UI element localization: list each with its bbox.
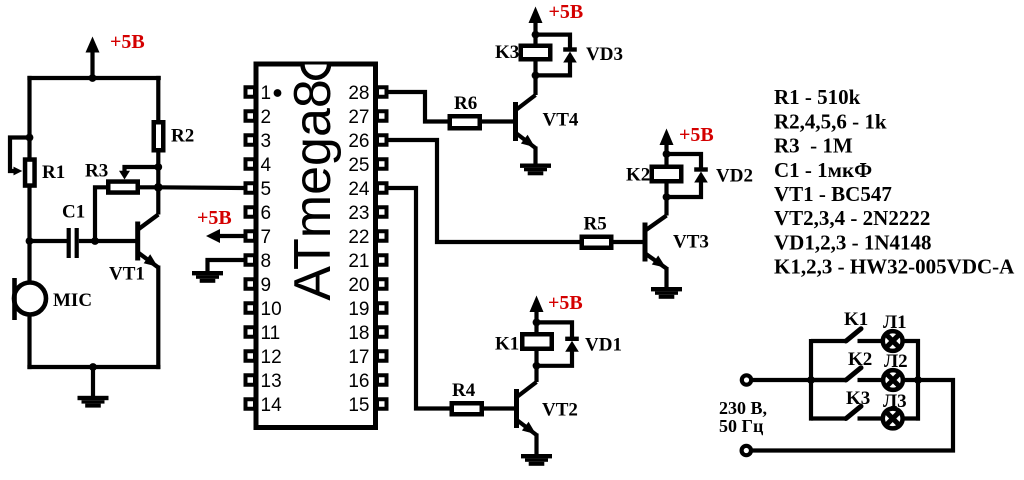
wire: lamp L1 to right bus — [902, 339, 920, 343]
wire: K3 top leg — [533, 35, 537, 45]
node: junction K1/VD1 bottom — [533, 362, 541, 370]
svg-text:9: 9 — [261, 275, 272, 296]
power +5V arrow (K3) — [529, 7, 543, 35]
wire: VD3 branch bottom — [536, 62, 571, 76]
wire: K1 top leg — [534, 322, 538, 333]
label 230V 50Hz — [719, 398, 767, 436]
transistor VT2 — [517, 382, 537, 435]
svg-text:20: 20 — [348, 275, 369, 296]
pin 16 (right) — [377, 375, 387, 385]
svg-text:18: 18 — [348, 323, 369, 344]
svg-text:VT2: VT2 — [542, 400, 578, 421]
power +5V arrow (K1) — [530, 296, 544, 323]
pin 6 (left) — [246, 207, 256, 217]
wire: return to bottom terminal — [751, 380, 953, 451]
svg-text:25: 25 — [348, 155, 369, 176]
pin 2 (left) — [246, 111, 256, 121]
wire: top terminal to switches — [751, 378, 846, 382]
svg-text:22: 22 — [348, 227, 369, 248]
wire: VT1 collector up to junction — [156, 189, 160, 215]
terminal (230V top) — [742, 375, 751, 384]
pin 14 (left) — [246, 399, 256, 409]
node: junction +5V/K2/VD2 top — [663, 150, 671, 158]
wire: lamp L2 to right bus — [902, 378, 920, 382]
svg-text:R1 - 510k: R1 - 510k — [774, 85, 861, 109]
svg-text:+5B: +5B — [679, 124, 714, 146]
svg-text:1: 1 — [261, 83, 272, 104]
wire: VT3 emitter to ground — [664, 267, 668, 288]
svg-text:24: 24 — [348, 179, 370, 200]
svg-text:VD2: VD2 — [716, 166, 753, 187]
microphone MIC — [14, 278, 46, 320]
pin 17 (right) — [377, 351, 387, 361]
wire: VD1 branch top — [537, 322, 573, 340]
pin 24 (right) — [377, 183, 387, 193]
svg-text:Л3: Л3 — [883, 391, 907, 412]
svg-text:R5: R5 — [584, 214, 607, 235]
svg-text:ATmega8: ATmega8 — [284, 79, 342, 301]
node: junction R2/R3/pin5/VT1-collector — [154, 183, 163, 192]
svg-text:17: 17 — [348, 347, 369, 368]
pin 5 (left) — [246, 183, 256, 193]
R3 wiper arrow — [119, 167, 158, 180]
node: junction +5V/K1/VD1 top — [533, 319, 541, 327]
pin 4 (left) — [246, 159, 256, 169]
parts list text — [774, 85, 1015, 278]
svg-text:+5B: +5B — [549, 1, 584, 23]
svg-text:21: 21 — [348, 251, 369, 272]
wire: VT2 emitter to ground — [534, 434, 538, 455]
svg-text:R2,4,5,6 - 1k: R2,4,5,6 - 1k — [774, 109, 887, 133]
wire: VT1 emitter down to bottom rail — [156, 266, 160, 370]
wire: R1 bottom to microphone — [27, 188, 31, 285]
switch K3 (contact) — [811, 406, 883, 418]
svg-text:K2: K2 — [848, 349, 872, 370]
svg-text:VD3: VD3 — [586, 44, 623, 65]
svg-text:23: 23 — [348, 203, 369, 224]
svg-text:K1,2,3 - HW32-005VDC-A: K1,2,3 - HW32-005VDC-A — [774, 255, 1015, 279]
node: junction K3/VD3 bottom — [532, 72, 540, 80]
potentiometer R3 body — [108, 182, 138, 193]
wire: bottom rail — [27, 365, 160, 369]
wire: R6 to VT4 base — [481, 119, 514, 123]
ground (pin 8) — [192, 271, 223, 283]
wire: VD2 branch top — [667, 154, 702, 171]
pin 26 (right) — [377, 135, 387, 145]
svg-text:11: 11 — [261, 323, 281, 344]
capacitor C1 — [67, 228, 79, 258]
pin 21 (right) — [377, 255, 387, 265]
pin 8 (left) — [246, 255, 256, 265]
R1 wiper wire loop — [10, 134, 33, 176]
resistor R6 — [450, 116, 480, 128]
IC notch — [303, 65, 330, 78]
svg-text:5: 5 — [261, 179, 272, 200]
svg-text:16: 16 — [348, 371, 369, 392]
svg-text:+5B: +5B — [197, 207, 232, 229]
pin 7 (left) — [246, 231, 256, 241]
svg-text:19: 19 — [348, 299, 369, 320]
svg-text:MIC: MIC — [53, 290, 92, 311]
svg-text:28: 28 — [348, 83, 369, 104]
wire: R2 bottom leg to collector junction — [156, 153, 160, 188]
svg-text:7: 7 — [261, 227, 272, 248]
wire: pin 28 to R6 — [388, 92, 449, 122]
switch K1 (contact) — [811, 329, 883, 341]
svg-text:8: 8 — [261, 251, 272, 272]
ground (VT2) — [521, 454, 552, 466]
node: junction R2-bottom / R3 wiper — [154, 163, 162, 171]
svg-text:R3: R3 — [85, 161, 108, 182]
svg-text:10: 10 — [261, 299, 282, 320]
wire: R3 right to main junction — [140, 185, 158, 189]
svg-text:26: 26 — [348, 131, 369, 152]
svg-text:15: 15 — [348, 395, 369, 416]
lamp L1 — [883, 331, 903, 351]
switch K2 (contact) — [811, 368, 883, 380]
svg-text:VT1 - BC547: VT1 - BC547 — [774, 182, 892, 206]
svg-text:VD1: VD1 — [585, 335, 622, 356]
svg-text:3: 3 — [261, 131, 272, 152]
wire: microphone to bottom rail — [27, 313, 31, 369]
svg-text:R1: R1 — [42, 162, 65, 183]
svg-text:C1 - 1мкФ: C1 - 1мкФ — [774, 158, 872, 182]
ground (VT3) — [651, 287, 682, 299]
node: junction C1/R3-left — [91, 237, 99, 245]
svg-text:VT3: VT3 — [673, 232, 709, 253]
wire: VT4 emitter to ground — [533, 147, 537, 165]
pin 13 (left) — [246, 375, 256, 385]
node: junction +5V / top rail — [89, 74, 97, 82]
svg-text:12: 12 — [261, 347, 282, 368]
wire: K2 top leg — [664, 154, 668, 166]
pin 9 (left) — [246, 279, 256, 289]
diode VD1 — [565, 339, 579, 352]
svg-text:2: 2 — [261, 107, 272, 128]
relay coil K3 — [521, 46, 551, 60]
wire: R4 to VT2 base — [484, 406, 515, 410]
svg-text:R2: R2 — [171, 126, 194, 147]
pin 18 (right) — [377, 327, 387, 337]
potentiometer R1 body — [25, 160, 35, 186]
wire: top rail R1-top to R2-top — [27, 76, 160, 80]
ground (VT4) — [520, 164, 551, 176]
node: junction left bus / feed — [807, 376, 815, 384]
wire: pin 8 to ground — [208, 260, 246, 272]
wire: ground stub — [91, 367, 95, 397]
wire: junction to ATmega8 pin 5 — [158, 185, 245, 190]
transistor VT1 — [138, 215, 159, 268]
pin 11 (left) — [246, 327, 256, 337]
wire: lamp L3 to right bus — [902, 416, 920, 420]
transistor VT3 — [645, 216, 667, 269]
svg-text:VD1,2,3 - 1N4148: VD1,2,3 - 1N4148 — [774, 230, 932, 254]
wire: R5 to VT3 base — [613, 240, 643, 244]
resistor R2 — [154, 122, 164, 150]
svg-text:VT4: VT4 — [543, 110, 579, 131]
ground (input stage) — [78, 396, 109, 408]
svg-text:R3 - 1M: R3 - 1M — [774, 134, 853, 158]
svg-text:VT2,3,4 - 2N2222: VT2,3,4 - 2N2222 — [774, 206, 930, 230]
wire: R2 top leg — [156, 76, 160, 121]
pin 1 (left) — [246, 87, 256, 97]
lamp L3 — [883, 409, 903, 429]
wire: K2 bottom leg — [664, 182, 668, 198]
transistor VT4 — [516, 95, 536, 148]
relay coil K1 — [522, 334, 552, 349]
wire: VT3 collector up — [664, 197, 668, 216]
wire: left rail from top rail down to R1 — [27, 76, 31, 159]
svg-text:+5B: +5B — [110, 31, 145, 53]
svg-text:R4: R4 — [452, 380, 476, 401]
wire: K1 bottom leg — [534, 349, 538, 366]
power +5V arrow at pin 7 — [206, 229, 245, 243]
svg-text:230 В,: 230 В, — [719, 398, 767, 418]
svg-text:K3: K3 — [846, 388, 870, 409]
wire: VD2 branch bottom — [667, 182, 702, 198]
node: junction right bus / return — [914, 376, 922, 384]
node: junction +5V/K3/VD3 top — [532, 31, 540, 39]
pin 1 marker dot — [274, 89, 282, 97]
pin 12 (left) — [246, 351, 256, 361]
svg-text:K1: K1 — [495, 334, 519, 355]
pin 25 (right) — [377, 159, 387, 169]
IC U1 ATmega8 body — [256, 64, 376, 428]
wire: C1 to VT1 base — [79, 239, 136, 243]
wire: K3 bottom leg — [533, 61, 537, 76]
svg-text:27: 27 — [348, 107, 369, 128]
svg-text:6: 6 — [261, 203, 272, 224]
pin 3 (left) — [246, 135, 256, 145]
svg-text:K2: K2 — [626, 165, 650, 186]
terminal (230V bottom) — [742, 446, 751, 455]
wire: VT4 collector up — [533, 75, 537, 95]
svg-text:14: 14 — [261, 395, 283, 416]
svg-text:R6: R6 — [454, 93, 477, 114]
svg-text:Л1: Л1 — [883, 312, 907, 333]
wire: C1 input wire from left rail — [26, 237, 34, 245]
node: junction K2/VD2 bottom — [663, 193, 671, 201]
diode VD2 — [694, 170, 708, 183]
wire: pin 24 to R4 — [388, 188, 451, 409]
diode VD3 — [563, 50, 577, 63]
svg-text:K1: K1 — [844, 309, 868, 330]
power +5V arrow (top-left) — [86, 37, 100, 79]
pin 22 (right) — [377, 231, 387, 241]
wire: pin 26 to R5 — [388, 140, 581, 242]
resistor R4 — [452, 403, 482, 414]
wire: VD3 branch top — [536, 35, 571, 51]
pin 10 (left) — [246, 303, 256, 313]
wire: VD1 branch bottom — [537, 351, 573, 366]
pin 27 (right) — [377, 111, 387, 121]
pin 20 (right) — [377, 279, 387, 289]
svg-text:K3: K3 — [495, 42, 519, 63]
power +5V arrow (K2) — [660, 129, 674, 155]
svg-text:4: 4 — [261, 155, 272, 176]
wire: VT2 collector up — [534, 366, 538, 382]
resistor R5 — [582, 237, 612, 248]
svg-text:+5B: +5B — [548, 292, 583, 314]
wire: right bus of lamp bank — [916, 339, 920, 421]
node: ground junction on bottom rail — [89, 363, 97, 371]
pin 15 (right) — [377, 399, 387, 409]
pin 23 (right) — [377, 207, 387, 217]
wire: R3 left leg up — [95, 187, 108, 241]
svg-text:13: 13 — [261, 371, 282, 392]
relay coil K2 — [652, 167, 682, 182]
wire: left bus of switch bank — [809, 339, 813, 421]
lamp L2 — [883, 370, 903, 390]
svg-text:Л2: Л2 — [884, 351, 908, 372]
svg-text:50 Гц: 50 Гц — [719, 416, 764, 436]
pin 28 (right) — [377, 87, 387, 97]
svg-text:C1: C1 — [62, 202, 85, 223]
pin 19 (right) — [377, 303, 387, 313]
svg-text:VT1: VT1 — [109, 264, 145, 285]
